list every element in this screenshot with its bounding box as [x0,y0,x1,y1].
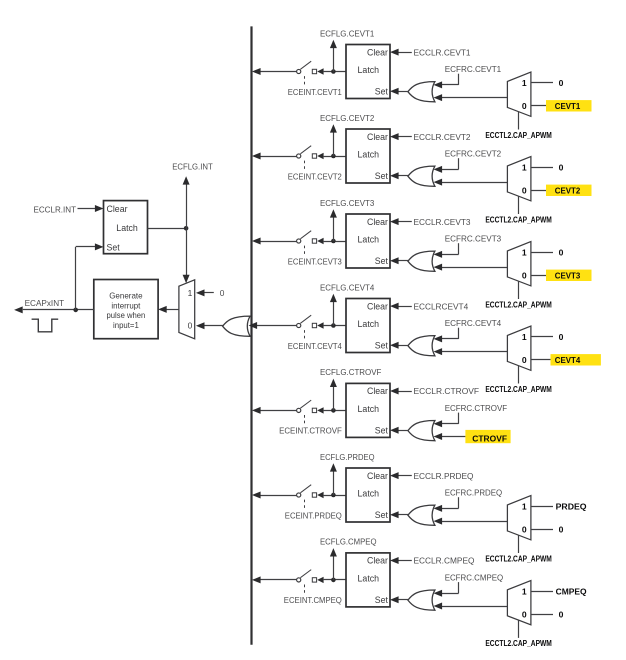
or-gate U10 interrupt OR [223,316,251,336]
wire ECFLG.CEVT1 riser [333,47,335,71]
wire CEVT1 mux input 0 [531,105,553,107]
pin Set of PRDEQ latch [375,510,389,520]
svg-text:Clear: Clear [367,217,388,227]
wire interrupt summing bus [250,26,252,644]
wire PRDEQ mux input 1 [531,506,553,508]
svg-text:0: 0 [559,78,564,88]
pin Set of INT latch [107,243,121,253]
wire ECFRC.CMPEQ elbow [442,582,459,593]
wire ECFLG.CEVT3 riser [333,217,335,241]
svg-text:PRDEQ: PRDEQ [556,502,587,512]
junction CTROVF flag node [331,408,336,413]
svg-text:ECEINT.CEVT1: ECEINT.CEVT1 [288,87,342,97]
latch U6 PRDEQ flag [346,468,390,522]
label ECCLR.CMPEQ [414,556,475,566]
arrow into INT mux input 1 [196,289,205,296]
latch U1 CEVT1 flag [346,45,390,99]
svg-text:0: 0 [559,524,564,534]
wire OR to Set CTROVF [397,430,408,432]
arrow CTROVF into bus [252,407,261,414]
pin 0 of PRDEQ mux [522,524,527,534]
arrow into CEVT1 Clear [390,49,399,56]
mux M7 CMPEQ APWM mux [507,581,531,625]
svg-text:1: 1 [522,248,527,258]
arrow to ECFLG.INT [183,176,190,184]
wire CMPEQ row to bus [260,579,296,581]
pin Latch of PRDEQ latch [358,489,380,499]
svg-text:ECEINT.CEVT4: ECEINT.CEVT4 [288,341,342,351]
pin 1 of CEVT2 mux [522,163,527,173]
svg-text:0: 0 [559,332,564,342]
wire INT latch output [148,228,187,230]
node CEVT3 highlighted source [546,270,592,281]
svg-text:ECFLG.CMPEQ: ECFLG.CMPEQ [320,537,377,547]
or-gate G7 CMPEQ set OR [408,590,435,610]
junction CEVT3 flag node [331,239,336,244]
svg-text:Clear: Clear [367,47,388,57]
svg-text:0: 0 [522,185,527,195]
arrow mux output into OR CEVT2 [434,179,443,186]
svg-text:0: 0 [522,270,527,280]
wire CTROVF source to OR [442,436,466,438]
svg-text:Clear: Clear [107,204,128,214]
or-gate G3 CEVT3 set OR [408,251,435,271]
arrow into pulse generator [158,306,167,313]
wire CEVT1 row to bus [260,71,296,73]
arrow into CEVT4 Clear [390,303,399,310]
pin Latch of CTROVF latch [358,404,380,414]
wire mux to OR CMPEQ [442,606,508,608]
arrow to ECFLG.CEVT2 [330,124,337,132]
arrow mux output into OR PRDEQ [434,518,443,525]
svg-text:1: 1 [522,587,527,597]
arrow into switch CEVT2 [317,153,323,159]
svg-text:Set: Set [375,510,389,520]
arrow to ECFLG.CTROVF [330,379,337,387]
arrow into CTROVF Set [390,427,399,434]
label ECCLR.CEVT2 [414,132,471,142]
or-gate G2 CEVT2 set OR [408,166,435,186]
label ECEINT.CEVT2 [288,171,342,181]
label ECFLG.INT [172,161,213,171]
pin Clear of CEVT1 latch [367,47,388,57]
svg-text:pulse when: pulse when [107,310,146,320]
mux M1 CEVT1 APWM mux [507,72,531,116]
label ECFLG.CTROVF [320,367,381,377]
svg-text:Set: Set [107,243,121,253]
svg-text:ECFLG.CEVT1: ECFLG.CEVT1 [320,28,375,38]
node PRDEQ source [556,502,587,512]
wire CMPEQ mux input 0 [531,614,553,616]
label ECFLG.CEVT3 [320,198,375,208]
label ECFLG.CMPEQ [320,537,377,547]
pin Clear of PRDEQ latch [367,471,388,481]
arrow CMPEQ into bus [252,576,261,583]
label ECFLG.PRDEQ [320,452,375,462]
wire ECFLG.CEVT2 riser [333,132,335,156]
wire ECFLG.CMPEQ riser [333,556,335,580]
wire OR to Set CEVT1 [397,91,408,93]
pin Latch of CEVT4 latch [358,319,380,329]
wire ECFRC.CEVT3 elbow [442,243,459,254]
svg-text:ECFRC.CMPEQ: ECFRC.CMPEQ [445,572,504,582]
pin Clear of CEVT4 latch [367,301,388,311]
or-gate G4 CEVT4 set OR [408,336,435,356]
switch ECEINT.CTROVF enable [297,400,317,426]
pin Set of CEVT2 latch [375,171,389,181]
label ECFRC.PRDEQ [445,487,503,497]
svg-text:Latch: Latch [116,223,138,233]
pin 0 of CEVT3 mux [522,270,527,280]
value 0 at INT mux input 1 [220,288,225,298]
arrow CEVT4 into bus [249,322,258,329]
wire switch to latch CEVT2 [324,156,346,158]
svg-text:0: 0 [559,609,564,619]
label ECEINT.CMPEQ [284,595,342,605]
switch ECEINT.CEVT1 enable [297,61,317,86]
label ECAPxINT [25,298,65,308]
label ECFLG.CEVT1 [320,28,375,38]
switch ECEINT.CEVT2 enable [297,146,317,172]
latch U4 CEVT4 flag [346,299,390,353]
svg-text:0: 0 [522,101,527,111]
label ECCTL2.CAP_APWM CEVT4 [485,385,552,394]
arrow into INT mux input 0 [196,322,205,329]
pin 1 of PRDEQ mux [522,502,527,512]
svg-text:ECEINT.PRDEQ: ECEINT.PRDEQ [285,510,342,520]
label ECCLR.CEVT1 [414,47,471,57]
arrow to ECFLG.CEVT3 [330,209,337,217]
pin 0 of INT mux [188,321,193,331]
pin Latch of CMPEQ latch [358,574,380,584]
mux INT output wire [167,309,179,311]
arrow CEVT1 into bus [252,68,261,75]
label ECEINT.CEVT3 [288,256,342,266]
wire ECCLR.CEVT1 to Clear [397,52,412,54]
wire mux to OR CEVT3 [442,267,508,269]
arrow ECFRC into OR CTROVF [434,420,443,427]
wire CEVT2 mux input 0 [531,190,553,192]
label ECFLG.CEVT4 [320,282,375,292]
arrow mux output into OR CEVT1 [434,94,443,101]
pin 0 of CMPEQ mux [522,609,527,619]
mux M4 CEVT4 APWM mux [507,326,531,370]
wire feedback riser to Set [76,247,97,310]
arrow CEVT2 into bus [252,153,261,160]
svg-text:Latch: Latch [358,65,380,75]
wire ECFLG.PRDEQ riser [333,471,335,495]
mux M6 PRDEQ APWM mux [507,496,531,540]
svg-text:ECCTL2.CAP_APWM: ECCTL2.CAP_APWM [485,215,552,224]
svg-text:ECAPxINT: ECAPxINT [25,298,65,308]
wire CEVT2 mux input 1 [531,167,553,169]
wire mux to OR CEVT1 [442,97,508,99]
node CEVT1 highlighted source [546,100,592,111]
arrow into INT Set [95,243,104,250]
svg-text:ECFLG.INT: ECFLG.INT [172,161,213,171]
node CMPEQ source [556,587,587,597]
svg-text:1: 1 [522,502,527,512]
svg-text:ECFRC.CEVT1: ECFRC.CEVT1 [445,64,502,74]
arrow ECFRC into OR CEVT3 [434,251,443,258]
wire switch to latch CEVT4 [324,325,346,327]
wire ECFRC.CEVT1 elbow [442,74,459,85]
svg-text:ECFLG.CTROVF: ECFLG.CTROVF [320,367,381,377]
switch ECEINT.PRDEQ enable [297,485,317,511]
pin Latch of CEVT2 latch [358,150,380,160]
wire OR to Set PRDEQ [397,514,408,516]
wire ECFRC.PRDEQ elbow [442,497,459,508]
wire PRDEQ mux input 0 [531,529,553,531]
label ECCLR.PRDEQ [414,471,474,481]
svg-text:Set: Set [375,595,389,605]
wire ECCLR.PRDEQ to Clear [397,475,412,477]
wire ECCLRCEVT4 to Clear [397,306,412,308]
arrow into PRDEQ Clear [390,472,399,479]
wire OR to Set CEVT2 [397,175,408,177]
wire CEVT4 mux input 0 [531,359,553,361]
wire mux to OR CEVT2 [442,182,508,184]
svg-text:ECCLRCEVT4: ECCLRCEVT4 [414,301,469,311]
arrow into CEVT1 Set [390,88,399,95]
wire CEVT1 mux input 1 [531,82,553,84]
label ECCLR.INT [34,204,77,214]
arrow into CMPEQ Clear [390,557,399,564]
label ECCTL2.CAP_APWM CEVT3 [485,300,552,309]
svg-text:ECCTL2.CAP_APWM: ECCTL2.CAP_APWM [485,385,552,394]
node CEVT4 highlighted source [551,354,601,365]
wire ECFRC.CEVT2 elbow [442,158,459,169]
arrow into INT mux select [183,275,190,283]
svg-text:Set: Set [375,87,389,97]
svg-text:Clear: Clear [367,132,388,142]
value 0 at CMPEQ mux input 0 [559,609,564,619]
latch U5 CTROVF flag [346,383,390,437]
svg-text:ECEINT.CTROVF: ECEINT.CTROVF [279,426,342,436]
svg-text:CEVT4: CEVT4 [555,355,581,365]
pin 0 of CEVT1 mux [522,101,527,111]
wire CEVT3 mux input 0 [531,275,553,277]
label ECCTL2.CAP_APWM CMPEQ [485,639,552,648]
svg-text:0: 0 [559,248,564,258]
wire switch to latch PRDEQ [324,495,346,497]
svg-text:0: 0 [522,355,527,365]
arrow into CEVT3 Set [390,257,399,264]
wire INT mux select drop [186,228,188,276]
svg-text:ECCTL2.CAP_APWM: ECCTL2.CAP_APWM [485,554,552,563]
pin Clear of INT latch [107,204,128,214]
wire CEVT3 mux select [518,281,520,299]
switch ECEINT.CEVT3 enable [297,231,317,257]
label ECCTL2.CAP_APWM CEVT1 [485,131,552,140]
svg-text:ECEINT.CMPEQ: ECEINT.CMPEQ [284,595,342,605]
svg-text:ECCTL2.CAP_APWM: ECCTL2.CAP_APWM [485,131,552,140]
svg-text:Set: Set [375,171,389,181]
svg-text:ECFRC.CEVT4: ECFRC.CEVT4 [445,318,502,328]
pin Clear of CTROVF latch [367,386,388,396]
svg-text:1: 1 [522,78,527,88]
svg-text:CEVT2: CEVT2 [555,185,581,195]
mux M3 CEVT3 APWM mux [507,242,531,286]
value 0 at CEVT4 mux input 1 [559,332,564,342]
svg-text:ECEINT.CEVT2: ECEINT.CEVT2 [288,171,342,181]
or-gate G6 PRDEQ set OR [408,505,435,525]
wire CEVT4 row to bus [257,325,297,327]
arrow into switch CMPEQ [317,577,323,583]
pin Latch of INT latch [116,223,138,233]
pin 0 of CEVT2 mux [522,185,527,195]
junction CMPEQ flag node [331,578,336,583]
wire CEVT2 row to bus [260,156,296,158]
pin Clear of CMPEQ latch [367,556,388,566]
wire CEVT3 row to bus [260,241,296,243]
svg-text:0: 0 [188,321,193,331]
svg-text:ECFLG.CEVT4: ECFLG.CEVT4 [320,282,375,292]
switch ECEINT.CEVT4 enable [297,315,317,341]
wire ECFLG.CEVT4 riser [333,301,335,325]
label ECCLR.CEVT3 [414,217,471,227]
arrow into switch CTROVF [317,407,323,413]
svg-text:Latch: Latch [358,489,380,499]
wire PRDEQ mux select [518,535,520,553]
svg-text:Clear: Clear [367,386,388,396]
arrow into CEVT2 Set [390,172,399,179]
svg-text:1: 1 [188,288,193,298]
wire ECAPxINT output [23,309,94,311]
pin 1 of CMPEQ mux [522,587,527,597]
svg-text:ECEINT.CEVT3: ECEINT.CEVT3 [288,256,342,266]
svg-text:CEVT3: CEVT3 [555,270,581,280]
wire PRDEQ row to bus [260,495,296,497]
value 0 at CEVT2 mux input 1 [559,163,564,173]
latch U2 CEVT2 flag [346,129,390,183]
svg-text:ECCLR.CMPEQ: ECCLR.CMPEQ [414,556,475,566]
wire ECCLR.CMPEQ to Clear [397,560,412,562]
arrow PRDEQ into bus [252,492,261,499]
arrow mux output into OR CMPEQ [434,603,443,610]
value 0 at PRDEQ mux input 0 [559,524,564,534]
arrow to ECFLG.CEVT4 [330,294,337,302]
arrow to ECFLG.PRDEQ [330,463,337,471]
switch ECEINT.CMPEQ enable [297,570,317,596]
wire ECFRC.CTROVF elbow [442,413,459,424]
wire ECCLR.CTROVF to Clear [397,391,412,393]
arrow into switch PRDEQ [317,492,323,498]
arrow CTROVF into OR [434,433,443,440]
wire switch to latch CMPEQ [324,579,346,581]
pin 1 of INT mux [188,288,193,298]
wire ECFLG.INT riser [186,184,188,229]
pin 1 of CEVT3 mux [522,248,527,258]
wire CEVT4 mux input 1 [531,336,553,338]
wire switch to latch CEVT3 [324,241,346,243]
svg-text:ECCLR.CEVT2: ECCLR.CEVT2 [414,132,471,142]
junction ECAPxINT feedback node [73,308,78,313]
label ECFRC.CTROVF [445,403,508,413]
pin Set of CEVT1 latch [375,87,389,97]
arrow mux output into OR CEVT3 [434,264,443,271]
arrow into CEVT4 Set [390,342,399,349]
pin Set of CTROVF latch [375,426,389,436]
svg-text:input=1: input=1 [113,320,139,330]
value 0 at CEVT1 mux input 1 [559,78,564,88]
svg-text:Latch: Latch [358,404,380,414]
svg-text:0: 0 [522,609,527,619]
wire ECCLR.INT to Clear [78,208,97,210]
label ECCTL2.CAP_APWM CEVT2 [485,215,552,224]
junction CEVT4 flag node [331,323,336,328]
or-gate G5 CTROVF set OR [408,421,435,441]
pin Set of CEVT3 latch [375,256,389,266]
wire ECFLG.CTROVF riser [333,386,335,410]
svg-text:Set: Set [375,426,389,436]
svg-text:ECCTL2.CAP_APWM: ECCTL2.CAP_APWM [485,300,552,309]
svg-text:Clear: Clear [367,556,388,566]
wire constant 0 to INT mux [205,292,214,294]
arrow mux output into OR CEVT4 [434,348,443,355]
svg-text:Set: Set [375,341,389,351]
mux U9 INT gate mux [179,280,195,339]
wire OR to Set CMPEQ [397,599,408,601]
label ECEINT.CEVT4 [288,341,342,351]
svg-text:Clear: Clear [367,471,388,481]
pin Clear of CEVT3 latch [367,217,388,227]
junction INT flag node [184,226,189,231]
arrow to ECFLG.CMPEQ [330,548,337,556]
arrow into switch CEVT3 [317,238,323,244]
wire OR output to INT mux [205,325,224,327]
svg-text:ECCLR.PRDEQ: ECCLR.PRDEQ [414,471,474,481]
label ECFRC.CMPEQ [445,572,504,582]
wire CEVT3 mux input 1 [531,252,553,254]
or-gate G1 CEVT1 set OR [408,82,435,102]
arrow ECFRC into OR CEVT2 [434,166,443,173]
label ECCLRCEVT4 [414,301,469,311]
label ECFRC.CEVT3 [445,233,502,243]
arrow into CTROVF Clear [390,388,399,395]
svg-text:ECFLG.CEVT3: ECFLG.CEVT3 [320,198,375,208]
junction CEVT1 flag node [331,69,336,74]
pin Latch of CEVT3 latch [358,235,380,245]
pin 0 of CEVT4 mux [522,355,527,365]
mux M2 CEVT2 APWM mux [507,157,531,201]
svg-text:ECFRC.CEVT3: ECFRC.CEVT3 [445,233,502,243]
wire CEVT4 mux select [518,366,520,384]
svg-text:interrupt: interrupt [111,300,141,310]
label ECFLG.CEVT2 [320,113,375,123]
arrow ECFRC into OR CEVT1 [434,81,443,88]
wire mux to OR PRDEQ [442,521,508,523]
wire mux to OR CEVT4 [442,351,508,353]
wire switch to latch CTROVF [324,410,346,412]
label ECEINT.CTROVF [279,426,342,436]
arrow ECFRC into OR CMPEQ [434,590,443,597]
arrow into INT Clear [95,205,104,212]
pin Set of CMPEQ latch [375,595,389,605]
svg-text:ECCTL2.CAP_APWM: ECCTL2.CAP_APWM [485,639,552,648]
svg-text:ECCLR.CTROVF: ECCLR.CTROVF [414,386,480,396]
svg-text:0: 0 [522,524,527,534]
svg-text:Latch: Latch [358,235,380,245]
latch U7 CMPEQ flag [346,553,390,607]
svg-text:Latch: Latch [358,150,380,160]
latch U3 CEVT3 flag [346,214,390,268]
label ECCTL2.CAP_APWM PRDEQ [485,554,552,563]
wire ECCLR.CEVT2 to Clear [397,136,412,138]
svg-text:ECCLR.INT: ECCLR.INT [34,204,77,214]
pin 1 of CEVT1 mux [522,78,527,88]
arrow ECAPxINT [14,306,23,313]
